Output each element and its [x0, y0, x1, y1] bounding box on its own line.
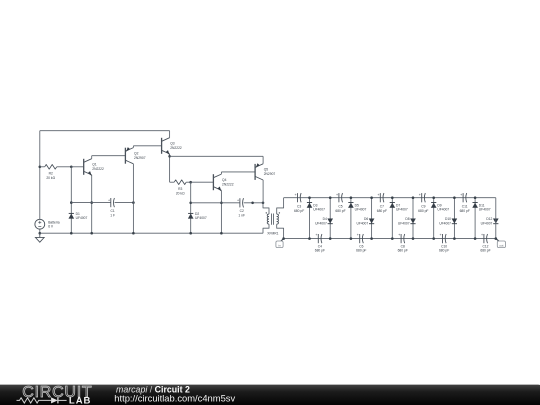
svg-text:UF4007: UF4007 [195, 216, 207, 220]
svg-text:out: out [499, 244, 503, 248]
junction R2/D1/Q1-base node [70, 166, 73, 169]
diode D3 UF4007 [307, 203, 325, 212]
svg-text:UF4007: UF4007 [76, 216, 88, 220]
junction D8 top [412, 196, 415, 199]
junction Q4 emitter/mid-rail-2 [220, 202, 223, 205]
junction Q4 emitter/bottom rail [220, 232, 223, 235]
footer title [116, 385, 190, 395]
svg-text:UF4007: UF4007 [356, 221, 368, 225]
svg-text:6 V: 6 V [48, 225, 54, 229]
wire D8 vertical [412, 198, 414, 239]
capacitor C1 (1 F) [108, 198, 115, 217]
wire Q3 emitter down [169, 154, 171, 182]
capacitor C6 (680 pF) [356, 233, 366, 252]
svg-text:UF4007: UF4007 [396, 208, 408, 212]
logo resistor-diode glyph [17, 397, 67, 403]
junction D8 bottom [412, 237, 415, 240]
logo CIRCUIT [22, 384, 92, 401]
svg-text:2N2222: 2N2222 [92, 167, 104, 171]
diode D6 UF4007 [356, 217, 374, 225]
wire top rail [40, 130, 170, 132]
svg-text:+: + [419, 193, 421, 197]
svg-text:+: + [481, 233, 483, 237]
junction out-node [495, 237, 498, 240]
svg-text:UF4007: UF4007 [439, 221, 451, 225]
junction D3 top [308, 196, 311, 199]
svg-text:+: + [315, 233, 317, 237]
resistor R3 (20 k&#937;) [170, 180, 191, 196]
junction D10 bottom [453, 237, 456, 240]
junction D7 bottom [391, 237, 394, 240]
diode D9 UF4007 [431, 203, 449, 212]
ground [35, 233, 44, 242]
wire Q2 collector down to bottom rail [132, 164, 134, 233]
junction D4 bottom [329, 237, 332, 240]
transistor Q3 2N2222 [162, 138, 182, 155]
svg-text:20 kΩ: 20 kΩ [46, 176, 55, 180]
wire D6 vertical [371, 198, 373, 239]
node in flag [276, 239, 284, 248]
junction D9 top [432, 196, 435, 199]
footer bar [0, 385, 540, 405]
svg-text:2N2222: 2N2222 [222, 182, 234, 186]
wire Q1 collector to Q2 base [92, 155, 126, 157]
wire mid-rail-1 right segment [115, 202, 134, 204]
svg-text:680 pF: 680 pF [480, 249, 490, 253]
svg-text:2N2907: 2N2907 [134, 156, 146, 160]
capacitor C2 (1 nF) [237, 198, 245, 217]
wire Q5 emitter up to emitter bus [262, 156, 264, 164]
svg-text:+: + [377, 193, 379, 197]
junction D3 bottom [308, 237, 311, 240]
svg-text:+: + [460, 193, 462, 197]
wire secondary bottom lead [277, 224, 284, 239]
footer url [114, 393, 235, 404]
svg-text:UF4007: UF4007 [313, 208, 325, 212]
capacitor C11 (680 pF) [460, 193, 470, 213]
diode D10 UF4007 [439, 217, 457, 225]
junction D7 top [391, 196, 394, 199]
svg-text:UF4007: UF4007 [355, 208, 367, 212]
wire secondary top lead [277, 198, 284, 214]
wire Q1 emitter down to bottom rail [91, 175, 93, 233]
junction D1/mid-rail [70, 201, 73, 204]
capacitor C12 (680 pF) [480, 233, 490, 252]
wire Q2 emitter up [132, 146, 134, 148]
junction R2 tap on left vertical [39, 166, 42, 169]
node out flag [496, 239, 506, 248]
svg-text:+: + [440, 233, 442, 237]
junction C2/Q5 collector/transformer [262, 202, 265, 205]
svg-text:+: + [357, 233, 359, 237]
wire top rail right corner down [495, 198, 497, 239]
wire D9 vertical [433, 198, 435, 239]
junction D11 bottom [474, 237, 477, 240]
svg-text:Batteria: Batteria [48, 220, 60, 224]
svg-text:UF4007: UF4007 [481, 221, 493, 225]
wire ladder bottom rail [284, 238, 496, 240]
svg-text:+: + [398, 233, 400, 237]
wire D5 vertical [350, 198, 352, 239]
diode D7 UF4007 [390, 203, 408, 212]
junction D2/bottom rail [189, 232, 192, 235]
wire Q2 emitter to Q3 base [133, 145, 161, 147]
svg-text:680 pF: 680 pF [335, 209, 345, 213]
junction on mid-rail-2 [251, 202, 254, 205]
svg-text:in: in [278, 244, 281, 248]
diode D1 UF4007 [69, 212, 88, 220]
capacitor C9 (680 pF) [418, 193, 428, 213]
junction D11 top [474, 196, 477, 199]
svg-text:http://circuitlab.com/c4nm5sv: http://circuitlab.com/c4nm5sv [114, 393, 235, 404]
wire D7 vertical [391, 198, 393, 239]
svg-text:680 pF: 680 pF [439, 249, 449, 253]
junction R3/D2 node [189, 181, 192, 184]
svg-text:UF4007: UF4007 [437, 208, 449, 212]
junction C1 rail / Q2 collector [132, 201, 135, 204]
svg-text:680 pF: 680 pF [315, 249, 325, 253]
svg-text:XFMR1: XFMR1 [267, 231, 278, 235]
logo LAB [69, 396, 92, 405]
wire mid-rail-2 left segment [191, 202, 240, 204]
junction D1/bottom rail [70, 232, 73, 235]
wire bottom rail [40, 232, 263, 234]
wire R2 node to Q1 base [71, 166, 83, 168]
junction battery/ground [39, 232, 42, 235]
svg-text:2N2907: 2N2907 [264, 172, 276, 176]
wire D11 vertical [474, 198, 476, 239]
wire mid-rail-1 left segment [71, 202, 110, 204]
transformer XFMR1 [266, 212, 281, 235]
svg-text:20 kΩ: 20 kΩ [176, 191, 185, 195]
junction Q2 collector/bottom rail [132, 232, 135, 235]
junction in-node [282, 237, 285, 240]
capacitor C7 (680 pF) [377, 193, 387, 213]
svg-text:680 pF: 680 pF [418, 209, 428, 213]
junction D2/mid-rail-2 [189, 202, 192, 205]
svg-text:LAB: LAB [69, 396, 92, 405]
wire Q1 collector up [91, 156, 93, 159]
diode D4 UF4007 [315, 217, 333, 225]
capacitor C8 (680 pF) [398, 233, 408, 252]
svg-text:1 F: 1 F [110, 213, 115, 217]
junction D5 top [350, 196, 353, 199]
junction D6 bottom [370, 237, 373, 240]
svg-text:680 pF: 680 pF [356, 249, 366, 253]
diode D12 UF4007 [481, 217, 499, 225]
wire R3 node to Q4 base [191, 181, 214, 183]
wire D1 branch vertical [70, 167, 72, 233]
svg-text:UF4007: UF4007 [479, 208, 491, 212]
wire Q4 collector up [220, 172, 222, 174]
transistor Q1 2N2222 [84, 159, 104, 176]
svg-text:+: + [108, 198, 110, 202]
diode D5 UF4007 [348, 203, 366, 212]
junction Q3 emitter node [168, 155, 171, 158]
svg-text:680 pF: 680 pF [460, 209, 470, 213]
transistor Q2 2N2907 [125, 147, 145, 164]
wire mid-rail-2 right segment [244, 202, 263, 204]
wire Q4 collector to Q5 base [221, 171, 255, 173]
junction D9 bottom [432, 237, 435, 240]
transistor Q5 2N2907 [255, 163, 275, 180]
junction D10 top [453, 196, 456, 199]
svg-text:+: + [336, 193, 338, 197]
junction Q1 emitter/bottom rail [90, 232, 93, 235]
capacitor C4 (680 pF) [315, 233, 325, 252]
capacitor C5 (680 pF) [335, 193, 345, 213]
svg-text:1 nF: 1 nF [238, 213, 245, 217]
svg-text:UF4007: UF4007 [398, 221, 410, 225]
diode D11 UF4007 [473, 203, 491, 212]
junction D5 bottom [350, 237, 353, 240]
svg-text:680 pF: 680 pF [377, 209, 387, 213]
wire D4 vertical [329, 198, 331, 239]
diode D2 UF4007 [188, 212, 207, 220]
junction D6 top [370, 196, 373, 199]
wire primary top lead [263, 203, 269, 214]
transistor Q4 2N2222 [213, 174, 233, 191]
svg-text:+: + [295, 193, 297, 197]
wire left vertical from top rail to battery [39, 131, 41, 220]
wire Q3 collector to top rail [169, 131, 171, 138]
svg-text:UF4007: UF4007 [315, 221, 327, 225]
capacitor C10 (680 pF) [439, 233, 449, 252]
wire D3 vertical [309, 198, 311, 239]
wire D2 branch vertical [190, 182, 192, 233]
svg-text:2N2222: 2N2222 [170, 146, 182, 150]
resistor R2 (20 k&#937;) [40, 165, 72, 181]
wire Q3 emitter node to Q5 emitter [170, 155, 264, 157]
wire ladder top rail [284, 197, 496, 199]
svg-text:+: + [237, 198, 239, 202]
junction D4 top [329, 196, 332, 199]
capacitor C3 (680 pF) [294, 193, 304, 213]
battery V1 (Batteria 6 V) [35, 219, 60, 229]
svg-text:680 pF: 680 pF [294, 209, 304, 213]
wire Q5 collector down [262, 180, 264, 203]
junction Q1 emitter/mid-rail-1 [90, 201, 93, 204]
wire battery to ground rail [39, 229, 41, 233]
wire D10 vertical [453, 198, 455, 239]
diode D8 UF4007 [398, 217, 416, 225]
wire primary bottom lead [263, 224, 269, 233]
wire Q4 emitter down to bottom rail [220, 190, 222, 233]
svg-text:680 pF: 680 pF [398, 249, 408, 253]
